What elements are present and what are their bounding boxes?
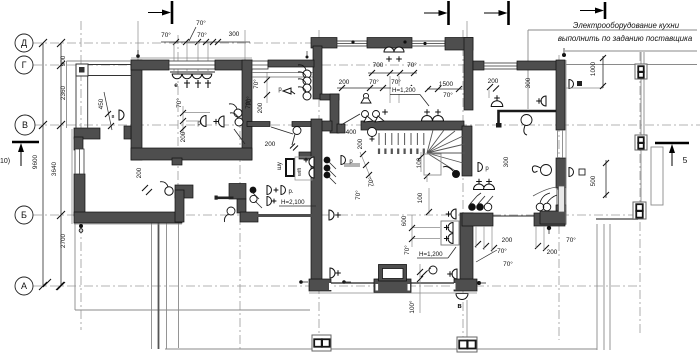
ceiling light room-A 4 <box>202 74 212 79</box>
wall between living and kitchen west part <box>462 213 493 226</box>
pilaster right 3 <box>633 202 646 219</box>
bell lamp room A 2 <box>219 116 225 127</box>
fireplace <box>374 279 411 293</box>
wall room-A north seg2 <box>215 60 252 70</box>
plus cone lamps <box>382 109 388 115</box>
upper-right terrace floor edge <box>566 64 697 66</box>
wifi box <box>295 157 312 180</box>
svg-text:400: 400 <box>346 129 357 136</box>
svg-text:200: 200 <box>488 78 499 85</box>
wall north-right seg2 <box>517 61 564 70</box>
wall hall jog horizontal <box>320 94 339 100</box>
porch roof edge north <box>67 60 132 62</box>
ceiling rose on wall <box>368 128 377 137</box>
wall corridor north east seg <box>292 122 318 127</box>
underline H=1200 living <box>417 257 448 259</box>
kitchen sink circle 2 <box>543 203 551 211</box>
entry lamp south <box>456 294 468 300</box>
door leaf hall <box>341 114 360 125</box>
dim tick 700 x414 <box>411 70 417 76</box>
staircase winder treads <box>427 130 465 172</box>
dim tick 9600 top <box>39 39 47 47</box>
pilaster upper-right 2 <box>635 135 647 150</box>
anchor dot room-A wall <box>136 54 140 58</box>
lamp <box>484 184 495 189</box>
porch corner column <box>76 64 88 76</box>
corridor wall lamp 2 <box>309 168 314 178</box>
tick below stairs 100 <box>426 209 432 215</box>
switch tick below stairs 3 <box>366 172 372 178</box>
living lamp south-east <box>452 269 457 279</box>
socket circle corridor <box>250 195 257 202</box>
shchu cabinet <box>286 159 294 176</box>
axis line 3 (vertical) <box>239 114 241 350</box>
axis bubble G <box>15 56 33 74</box>
axis line V (horizontal) <box>33 124 700 126</box>
porch north edge 2 <box>88 75 131 77</box>
top dim drop x187 <box>186 42 188 71</box>
staircase newel pendant <box>452 170 460 178</box>
axis line D (horizontal) <box>33 42 312 44</box>
svg-text:70°: 70° <box>252 79 260 89</box>
dim drop stairs <box>420 152 422 172</box>
axis line 6 (vertical) <box>558 55 560 340</box>
ceiling light room-A 2 <box>182 74 192 79</box>
kitchen door swing arc <box>533 187 557 196</box>
dim tick hall x342 <box>339 85 345 91</box>
pilaster bottom 2 <box>457 337 477 352</box>
upper-right terrace north edge <box>565 50 697 52</box>
axis A tick 2 <box>56 282 64 290</box>
note leader shelf <box>528 29 697 31</box>
svg-text:Д: Д <box>21 38 27 48</box>
wall corridor north west seg <box>247 122 270 127</box>
wall porch corner vertical <box>74 137 83 150</box>
dim chain line segments <box>60 43 62 286</box>
plus mark under light x198 <box>195 80 201 88</box>
wall between living and kitchen east part <box>534 213 565 226</box>
svg-text:600: 600 <box>401 215 408 226</box>
switch tick room C 2 <box>264 92 270 98</box>
svg-text:200: 200 <box>339 79 350 86</box>
leader H=1200 living <box>448 247 456 258</box>
wall room-A north seg1 <box>131 60 169 70</box>
plus room A lamps <box>213 119 218 124</box>
top dim tick x186 <box>183 39 189 45</box>
window east <box>557 189 565 205</box>
drop kitchen lamp <box>488 90 490 98</box>
finish line west <box>71 129 73 224</box>
svg-text:2360: 2360 <box>60 85 67 100</box>
dim tick axis D <box>57 39 65 47</box>
right terrace step mid <box>603 224 605 350</box>
tick 450 a <box>105 111 111 117</box>
switch drop room C <box>266 72 268 103</box>
axis line 5 (vertical) <box>462 30 464 352</box>
svg-text:70°: 70° <box>161 31 171 39</box>
tick 450 b <box>108 123 114 129</box>
cone lamps hall bottom <box>362 111 369 118</box>
section mark 4 top-right <box>604 2 607 19</box>
axis bubble V <box>15 115 35 135</box>
room C counter line 2 <box>252 76 313 78</box>
dim line 500 <box>605 160 607 198</box>
finish line east <box>565 60 567 224</box>
pendant room A 2 <box>235 118 243 126</box>
drop 700 b <box>398 76 400 103</box>
svg-text:200: 200 <box>136 167 143 178</box>
leader 70-2 <box>189 27 196 41</box>
wall hall west upper <box>313 46 322 99</box>
finish line north room-A <box>131 57 252 59</box>
axis bubble D <box>15 34 33 52</box>
kitchen counter block <box>540 211 566 224</box>
switch stem corridor <box>292 134 295 145</box>
junction dot <box>476 203 484 211</box>
switch tick corridor b <box>293 146 298 151</box>
section mark 3 top-mid-right <box>507 1 510 25</box>
svg-text:3640: 3640 <box>51 161 58 176</box>
dim line living lamps <box>411 215 413 247</box>
door threshold line <box>493 215 534 217</box>
wall east seg1 <box>556 60 565 130</box>
switch knob living <box>429 266 437 274</box>
svg-text:wifi: wifi <box>297 168 303 177</box>
top dim tick x218 <box>215 39 221 45</box>
door leaf corridor <box>271 127 293 134</box>
dim tick axis B <box>57 211 65 219</box>
wall jamb left vertical <box>175 190 184 222</box>
axis line 2 (vertical) <box>177 35 179 222</box>
svg-text:выполнить по заданию поставщик: выполнить по заданию поставщика <box>558 34 693 43</box>
svg-text:1000: 1000 <box>590 61 597 76</box>
anchor dot living east <box>477 281 481 285</box>
svg-text:100: 100 <box>417 192 424 203</box>
axis bubble B <box>15 206 33 224</box>
switch tick corridor a <box>290 144 295 149</box>
door jamb lines east <box>557 130 559 158</box>
plus hall lamp 2 <box>396 56 402 62</box>
plus mark under light x187 <box>184 80 190 88</box>
kitchen riser rod <box>559 186 565 212</box>
svg-text:200: 200 <box>265 141 276 148</box>
corridor wall lamp 1 <box>309 157 314 167</box>
pilaster upper-right 1 <box>635 64 647 79</box>
kitchen sink hooks <box>540 193 557 203</box>
leader 1000 bottom <box>566 87 603 89</box>
svg-text:70°: 70° <box>566 236 576 244</box>
axis A tick 1 <box>43 279 51 287</box>
svg-text:700: 700 <box>373 62 384 69</box>
leader lamp 1 <box>413 227 440 229</box>
upper-right terrace east edge <box>640 52 642 217</box>
dim tick 9600 bottom <box>39 282 47 290</box>
lamp corridor D1 <box>267 186 272 195</box>
wall room-A south <box>131 148 252 160</box>
door leaf rod corridor-west <box>216 197 234 200</box>
svg-text:10): 10) <box>0 158 10 165</box>
bell lamp room A 1 <box>201 116 206 127</box>
dim line 450 <box>104 92 112 130</box>
svg-text:70°: 70° <box>403 245 411 255</box>
switch tick room A 1 <box>180 110 186 116</box>
window room-A north <box>169 61 215 69</box>
svg-text:200: 200 <box>547 249 558 256</box>
wall east seg2 <box>556 158 566 188</box>
socket east 1 <box>569 80 574 89</box>
dim tick 700 x400 <box>397 70 403 76</box>
svg-text:200: 200 <box>502 237 513 244</box>
svg-text:1500: 1500 <box>439 81 454 88</box>
kitchen sink circle 1 <box>536 203 544 211</box>
pendant below right jamb <box>227 207 235 215</box>
porch step line 1 <box>151 223 153 349</box>
kitchen lamp D <box>478 163 483 172</box>
upper-right terrace east inner edge <box>643 52 645 145</box>
section mark 5 bottom-right <box>655 142 689 145</box>
finish line south room-B <box>74 223 182 225</box>
svg-text:70°: 70° <box>391 78 401 86</box>
pendant room C 4 <box>303 92 311 100</box>
wall living SW corner block <box>309 279 331 291</box>
svg-text:200: 200 <box>357 138 364 149</box>
wall corridor junction block <box>317 121 332 131</box>
dim chain line overall (9600) <box>42 43 44 286</box>
lamp corridor D3 <box>267 197 272 206</box>
ceiling light room-A 3 <box>192 74 202 79</box>
lamp corridor D2 <box>281 186 286 195</box>
kitchen hob circle <box>484 203 492 211</box>
top dim drop x174 <box>173 42 175 71</box>
wall jamb left horizontal <box>175 185 193 198</box>
socket east 2 <box>569 168 574 177</box>
svg-text:e: e <box>174 82 178 89</box>
wall living east <box>460 213 473 283</box>
window west wall <box>75 149 84 174</box>
grid drop x138 <box>137 21 139 60</box>
lamp group box living <box>441 221 459 245</box>
socket dot wall y160 <box>324 157 331 164</box>
svg-text:70°: 70° <box>354 190 362 200</box>
underline H=1200 hall <box>390 94 420 96</box>
svg-text:500: 500 <box>590 175 597 186</box>
leader lamps room A upper <box>184 112 210 114</box>
svg-text:H=1,200: H=1,200 <box>419 251 443 258</box>
pendant kitchen <box>541 165 552 176</box>
sill dot 1 <box>351 40 354 43</box>
svg-text:H=1,200: H=1,200 <box>392 87 416 94</box>
lamp <box>448 223 453 233</box>
wall north-right seg1 <box>473 61 484 70</box>
tick 1500 a <box>425 86 431 92</box>
axis line G (horizontal) <box>33 64 565 66</box>
pendant corridor <box>165 187 173 195</box>
section mark 10 left <box>12 141 39 144</box>
sill line room A window <box>170 71 215 73</box>
pendant room C 3 <box>303 84 311 92</box>
wall room-A west <box>131 60 142 160</box>
switch tick corridor <box>142 185 148 191</box>
svg-text:70°: 70° <box>369 78 379 86</box>
wall jamb right lower <box>240 212 258 222</box>
svg-text:70°: 70° <box>407 61 417 69</box>
svg-text:70°: 70° <box>497 247 507 255</box>
lamp <box>474 184 485 189</box>
dim drop below stairs <box>428 188 430 214</box>
svg-text:70°: 70° <box>443 91 453 99</box>
svg-text:70°: 70° <box>197 31 207 39</box>
section mark 2 top-mid-left <box>447 1 450 25</box>
anchor dot right wall <box>562 53 566 57</box>
lower-left terrace west edge <box>74 222 76 310</box>
porch step line 3 <box>166 223 168 349</box>
top dim drop x208 <box>207 42 209 71</box>
hall lamp SE 2 <box>433 116 444 122</box>
plus mark under light x208 <box>205 80 211 88</box>
door leaf room A south <box>234 129 245 144</box>
pendant kitchen center <box>521 115 532 126</box>
svg-text:p.: p. <box>288 189 293 195</box>
dim line 700 <box>368 72 417 74</box>
switch drop room A <box>182 106 184 134</box>
wall above staircase <box>361 121 464 130</box>
switch leader below stairs <box>360 152 374 186</box>
switch tick room A 3 <box>180 126 186 132</box>
anchor living SW right <box>342 280 346 284</box>
right terrace step outer <box>596 224 598 350</box>
axis line 7 (vertical) <box>639 52 641 335</box>
switch living <box>421 271 427 277</box>
hall lamp SE 1 <box>422 116 433 122</box>
wall top facade seg1 <box>311 38 337 49</box>
pendant room C 2 <box>303 77 311 85</box>
wall room-C north <box>268 60 314 67</box>
socket dot wall y168 <box>324 165 331 172</box>
dim tick axis A <box>57 282 65 290</box>
anchor dot room-C wall <box>306 56 309 59</box>
svg-text:Электрооборудование кухни: Электрооборудование кухни <box>573 21 680 30</box>
staircase treads <box>379 133 424 145</box>
tick 1500 b <box>456 86 462 92</box>
dim tick axis G <box>57 61 65 69</box>
tick below landing <box>424 173 430 179</box>
window north-right <box>484 63 517 69</box>
svg-text:300: 300 <box>525 77 532 88</box>
sill dot 2 <box>403 40 406 43</box>
pilaster bottom 1 <box>312 335 331 351</box>
ceiling light room-A 1 <box>172 74 182 79</box>
newel pendant hook <box>443 167 453 172</box>
dim tick axis V <box>57 121 65 129</box>
porch west edge 1 <box>75 76 77 128</box>
wall west below window <box>74 174 85 216</box>
wall jamb right mid <box>237 199 246 213</box>
staircase landing <box>424 154 441 175</box>
living south facade lines <box>331 282 375 284</box>
porch north edge 1 <box>88 64 131 66</box>
axis line A (horizontal) <box>33 285 640 287</box>
dim drop fireplace right <box>419 264 421 313</box>
leader H=1200 hall <box>420 95 429 107</box>
underline H=2100 <box>279 205 316 207</box>
switch tick corridor 2 <box>146 189 152 195</box>
living lamp south-west <box>330 268 335 278</box>
dim tick 700 x372 <box>369 70 375 76</box>
wall hall west lower <box>311 119 322 282</box>
axis bubble A <box>15 277 33 295</box>
dim tick 9600 mid <box>39 121 47 129</box>
dim tick 700 x390 <box>387 70 393 76</box>
pendant room C 1 <box>303 70 311 78</box>
switch tick below stairs 2 <box>363 162 369 168</box>
top dim drop x198 <box>197 42 199 71</box>
wall south room-B <box>74 212 182 223</box>
wall kitchen west lower <box>462 126 472 176</box>
switch knob corridor <box>293 127 301 135</box>
tick 1500 mid <box>435 86 441 92</box>
kitchen wall lamp <box>541 96 546 106</box>
socket dot corridor 1 <box>250 187 257 194</box>
svg-text:450: 450 <box>98 98 105 109</box>
lower-left terrace south edge <box>75 309 310 311</box>
svg-text:в: в <box>112 114 115 120</box>
cone lamp room C <box>283 88 295 94</box>
wall room-A east <box>242 60 252 160</box>
sill dot 3 <box>423 42 426 45</box>
socket porch <box>119 110 124 120</box>
svg-text:в: в <box>457 303 462 310</box>
leader lamps room A <box>186 120 200 122</box>
wall east seg3 <box>556 205 566 224</box>
dim tick hall x409 <box>406 85 412 91</box>
wall jamb right upper <box>229 184 246 200</box>
svg-text:70°: 70° <box>503 260 513 268</box>
living lamp east <box>451 209 456 219</box>
section mark 1 top-left <box>171 1 174 24</box>
drop to south pilaster <box>466 300 468 337</box>
plus hall lamp 1 <box>386 56 392 62</box>
anchor living SW left <box>299 280 303 284</box>
svg-text:В: В <box>22 120 28 130</box>
grid drop x245 <box>244 30 246 60</box>
dim line 1000 <box>602 56 604 88</box>
top dim tick x206 <box>203 39 209 45</box>
wall top facade seg2 <box>367 38 412 49</box>
svg-text:Б: Б <box>21 210 27 220</box>
svg-text:9600: 9600 <box>32 154 39 169</box>
porch step line 2 <box>158 223 160 349</box>
junction dot <box>468 203 476 211</box>
partition rod <box>248 214 315 217</box>
wall stub below room-A <box>172 158 182 165</box>
wall hall jog vertical <box>330 94 339 133</box>
svg-text:200: 200 <box>257 102 264 113</box>
finish line south living <box>309 292 477 294</box>
right terrace step inner <box>609 224 611 350</box>
right terrace ledge <box>596 218 638 220</box>
switch tick below stairs 1 <box>360 151 366 157</box>
wall corridor seg east <box>299 152 315 159</box>
hall ceiling lamp 1 <box>384 47 394 52</box>
svg-text:100°: 100° <box>408 300 416 314</box>
svg-text:900: 900 <box>60 55 67 66</box>
drop below landing <box>426 175 428 182</box>
svg-text:5: 5 <box>683 155 688 165</box>
porch roof edge west <box>66 61 68 128</box>
wall door jamb hall <box>337 124 345 133</box>
wall porch corner horizontal <box>74 128 100 139</box>
living lamp west <box>329 210 334 220</box>
